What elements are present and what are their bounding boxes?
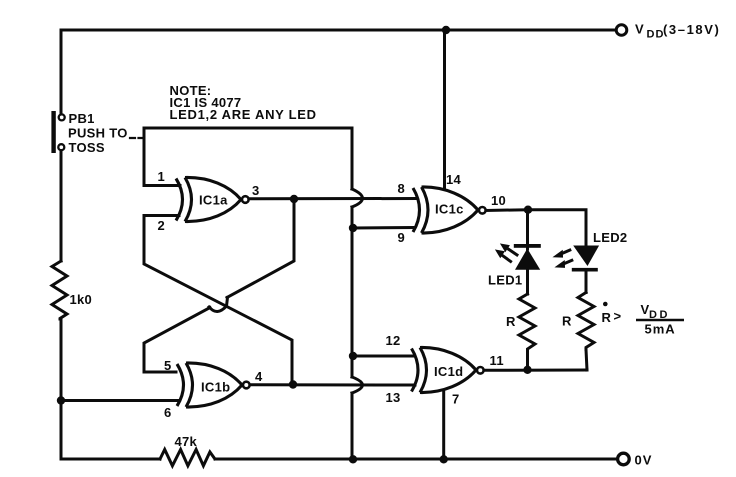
svg-text:R: R bbox=[506, 314, 516, 329]
svg-text:1k0: 1k0 bbox=[70, 292, 93, 307]
svg-text:LED1,2 ARE ANY LED: LED1,2 ARE ANY LED bbox=[170, 107, 317, 122]
svg-text:(3–18V): (3–18V) bbox=[663, 22, 720, 37]
svg-text:PUSH TO: PUSH TO bbox=[68, 126, 128, 141]
svg-text:LED1: LED1 bbox=[488, 273, 522, 288]
svg-text:7: 7 bbox=[452, 392, 460, 407]
svg-text:DD: DD bbox=[647, 29, 665, 41]
svg-text:LED2: LED2 bbox=[593, 230, 627, 245]
svg-text:2: 2 bbox=[158, 218, 166, 233]
svg-text:47k: 47k bbox=[175, 434, 198, 449]
svg-text:V: V bbox=[635, 22, 644, 37]
svg-text:>: > bbox=[614, 309, 622, 324]
svg-text:1: 1 bbox=[158, 169, 166, 184]
svg-text:13: 13 bbox=[386, 390, 401, 405]
svg-text:4: 4 bbox=[255, 369, 263, 384]
svg-text:14: 14 bbox=[446, 172, 462, 187]
svg-text:IC1b: IC1b bbox=[201, 380, 230, 395]
svg-text:8: 8 bbox=[398, 181, 406, 196]
svg-text:IC1d: IC1d bbox=[434, 364, 463, 379]
svg-text:0V: 0V bbox=[635, 453, 653, 468]
svg-text:R: R bbox=[562, 314, 572, 329]
svg-text:TOSS: TOSS bbox=[69, 140, 105, 155]
svg-text:PB1: PB1 bbox=[69, 111, 95, 126]
svg-text:9: 9 bbox=[398, 230, 406, 245]
svg-text:5mA: 5mA bbox=[645, 322, 676, 337]
svg-text:11: 11 bbox=[490, 353, 504, 368]
svg-text:12: 12 bbox=[386, 333, 401, 348]
svg-text:5: 5 bbox=[164, 358, 172, 373]
svg-text:R: R bbox=[602, 310, 612, 325]
svg-text:6: 6 bbox=[164, 405, 172, 420]
svg-text:10: 10 bbox=[491, 193, 506, 208]
svg-text:3: 3 bbox=[252, 183, 260, 198]
svg-text:IC1a: IC1a bbox=[199, 193, 228, 208]
svg-text:IC1c: IC1c bbox=[435, 202, 464, 217]
